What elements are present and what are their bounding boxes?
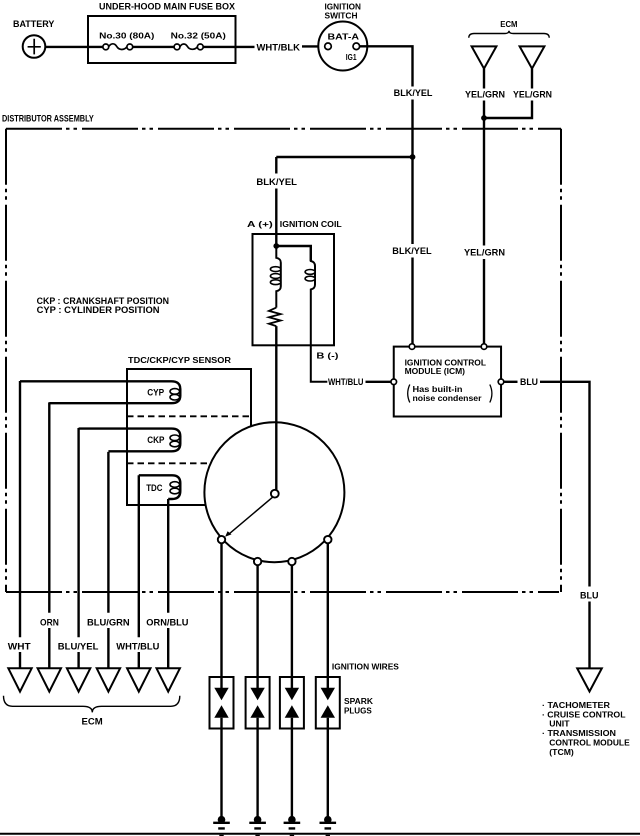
svg-text:BATTERY: BATTERY: [13, 19, 54, 29]
svg-text:SWITCH: SWITCH: [325, 12, 358, 21]
ground plane line: [0, 833, 640, 835]
svg-text:BLK/YEL: BLK/YEL: [256, 177, 297, 187]
ECM connector triangle 2: [38, 668, 61, 691]
svg-text:BLU: BLU: [580, 591, 599, 601]
ground 1: [213, 816, 230, 829]
primary winding: [276, 246, 281, 308]
sensor wire 2 (ORN): [48, 402, 50, 668]
wire BLU right and down: [540, 382, 590, 587]
svg-text:WHT/BLK: WHT/BLK: [257, 43, 301, 53]
CKP pickup coil loop: [79, 429, 181, 452]
terminal BAT-A: [325, 43, 332, 50]
ground 3rd bars: [219, 835, 330, 836]
sensor divider 2 (dashed): [127, 462, 251, 464]
ECM connector triangle 4: [97, 668, 120, 691]
spark plug 1: [210, 677, 234, 816]
ECM connector triangle 5: [127, 668, 150, 691]
wire ICM to BLU: [504, 381, 518, 383]
wire YEL/GRN down: [483, 118, 485, 246]
secondary winding: [311, 246, 328, 382]
svg-text:CKP: CKP: [147, 435, 164, 445]
ECM connector triangle (left): [472, 46, 497, 68]
svg-text:BLK/YEL: BLK/YEL: [392, 246, 432, 256]
wire: [275, 189, 277, 247]
ignition switch SW1: [318, 3, 367, 71]
wire ignition switch to BLK/YEL vertical: [360, 46, 413, 86]
ignition control module box U1: [394, 347, 501, 417]
battery B1: [13, 19, 54, 58]
sensor wire 1 (WHT): [19, 381, 21, 668]
svg-text:WHT: WHT: [8, 641, 31, 651]
ground 4: [320, 816, 337, 829]
svg-text:· CRUISE CONTROL: · CRUISE CONTROL: [542, 710, 626, 719]
svg-text:noise condenser: noise condenser: [413, 394, 482, 403]
destination device list: [542, 701, 630, 757]
rotor contact 3: [288, 558, 295, 565]
fuse No.32 (50A): [171, 32, 227, 50]
svg-text:IGNITION: IGNITION: [325, 3, 362, 12]
ECM underbrace: [4, 696, 180, 713]
svg-text:YEL/GRN: YEL/GRN: [464, 248, 505, 258]
spark wire 3: [291, 565, 293, 677]
TDC coil windings: [170, 482, 180, 488]
svg-text:ORN/BLU: ORN/BLU: [146, 617, 188, 627]
svg-text:B (-): B (-): [316, 351, 339, 360]
TDC pickup coil loop: [139, 475, 181, 499]
distributor assembly dashed border bottom: [6, 591, 559, 593]
CYP coil windings: [170, 389, 180, 395]
spark wire 1: [220, 543, 222, 677]
svg-text:WHT/BLU: WHT/BLU: [116, 641, 159, 651]
svg-text:Has built-in: Has built-in: [413, 385, 463, 394]
ICM pin (YEL/GRN): [481, 344, 487, 350]
wire fuse1 to fuse2: [133, 46, 175, 48]
junction A(+): [273, 243, 279, 249]
rotor contact 1: [218, 536, 225, 543]
wire fuse box to WHT/BLK label: [203, 46, 254, 48]
ICM pin (WHT/BLU): [391, 379, 397, 385]
distributor assembly dashed border top: [6, 128, 561, 130]
rotor contact 2: [254, 558, 261, 565]
distributor rotor circle: [204, 422, 344, 562]
svg-text:DISTRIBUTOR ASSEMBLY: DISTRIBUTOR ASSEMBLY: [2, 113, 94, 123]
rotor arrowhead: [225, 531, 231, 537]
sensor wire 5 (WHT/BLU): [138, 475, 140, 668]
distributor assembly dashed border left: [5, 129, 7, 592]
wire ECM right down: [531, 69, 533, 89]
CYP pickup coil loop: [20, 381, 180, 403]
svg-text:UNDER-HOOD MAIN FUSE BOX: UNDER-HOOD MAIN FUSE BOX: [99, 2, 235, 12]
sensor wire 3 (BLU/YEL): [77, 428, 79, 668]
svg-text:IGNITION COIL: IGNITION COIL: [280, 220, 342, 229]
wire BLU to connector: [588, 602, 590, 669]
junction at ignition coil branch: [410, 154, 416, 160]
wire coil to distributor center: [275, 326, 277, 490]
wire BLK/YEL junction down: [411, 157, 413, 244]
ICM pin (BLU): [498, 379, 504, 385]
sensor divider 1 (dashed): [127, 415, 251, 417]
svg-text:BLK/YEL: BLK/YEL: [394, 88, 433, 98]
wire junction to secondary: [276, 246, 311, 261]
svg-text:No.30 (80A): No.30 (80A): [99, 32, 155, 41]
CKP coil windings: [170, 435, 180, 441]
ignition coil box T1: [253, 234, 335, 345]
svg-text:A (+): A (+): [247, 220, 273, 229]
ECM connector triangle 6: [157, 668, 180, 691]
ICM pin (BLK/YEL): [409, 344, 415, 350]
svg-text:YEL/GRN: YEL/GRN: [513, 89, 552, 99]
ECM connector triangle 3: [67, 668, 90, 691]
svg-text:BLU/YEL: BLU/YEL: [58, 641, 99, 651]
svg-text:PLUGS: PLUGS: [344, 707, 372, 716]
spark plug 4: [316, 677, 340, 816]
svg-text:BLU/GRN: BLU/GRN: [87, 617, 130, 627]
wire WHT/BLK to ignition switch: [302, 45, 325, 47]
svg-text:· TACHOMETER: · TACHOMETER: [542, 701, 610, 710]
connector triangle BLU: [577, 668, 602, 691]
wire ICM-branch to ignition coil: [276, 156, 412, 158]
legend CKP/CYP: [37, 296, 169, 315]
spark wire 4: [327, 543, 329, 677]
rotor arm: [230, 497, 273, 533]
svg-text:ECM: ECM: [82, 716, 103, 726]
svg-text:YEL/GRN: YEL/GRN: [465, 89, 505, 99]
svg-text:(TCM): (TCM): [549, 748, 574, 757]
wire down to coil: [275, 157, 277, 174]
svg-text:IG1: IG1: [346, 53, 357, 62]
distributor assembly dashed border right: [560, 129, 562, 592]
svg-text:CONTROL MODULE: CONTROL MODULE: [549, 738, 630, 747]
spark plug 3: [280, 677, 304, 816]
wire YEL/GRN to ICM: [483, 259, 485, 344]
under-hood main fuse box: [88, 2, 236, 63]
svg-text:No.32 (50A): No.32 (50A): [171, 32, 227, 41]
svg-text:MODULE (ICM): MODULE (ICM): [405, 367, 466, 376]
sensor wire 6 (ORN/BLU): [167, 499, 169, 668]
wire battery to fuse box: [45, 46, 103, 48]
svg-text:UNIT: UNIT: [549, 719, 569, 728]
svg-text:CYP : CYLINDER POSITION: CYP : CYLINDER POSITION: [37, 305, 160, 315]
svg-text:BAT-A: BAT-A: [328, 32, 360, 41]
svg-text:CYP: CYP: [147, 387, 164, 397]
fuse No.30 (80A): [99, 32, 155, 50]
ECM connector triangle (right): [520, 46, 545, 68]
svg-text:TDC/CKP/CYP SENSOR: TDC/CKP/CYP SENSOR: [128, 356, 231, 365]
junction YEL/GRN: [481, 115, 487, 121]
ECM connector triangle 1: [8, 668, 31, 691]
svg-text:BLU: BLU: [520, 377, 538, 387]
spark plugs label: [344, 697, 373, 715]
ground 3: [284, 816, 301, 829]
rotor contact 4: [324, 536, 331, 543]
wire BLK/YEL to ICM: [411, 258, 413, 345]
terminal IG1: [353, 43, 360, 50]
svg-text:TDC: TDC: [146, 483, 163, 493]
wire ECM left down: [483, 69, 485, 89]
svg-text:ECM: ECM: [500, 20, 518, 29]
svg-text:IGNITION WIRES: IGNITION WIRES: [332, 662, 399, 672]
svg-text:· TRANSMISSION: · TRANSMISSION: [542, 729, 616, 738]
svg-text:WHT/BLU: WHT/BLU: [328, 377, 364, 387]
svg-text:ORN: ORN: [40, 617, 59, 627]
spark plug 2: [246, 677, 270, 816]
wire: [483, 101, 485, 119]
wire BLK/YEL down to junction: [411, 100, 413, 158]
spark wire 2: [256, 565, 258, 677]
wire right joins left: [484, 101, 532, 119]
sensor wire 4 (BLU/GRN): [107, 452, 109, 668]
resistor (coil primary resistance): [269, 308, 281, 327]
sensor box: [127, 369, 251, 505]
ECM brace: [469, 31, 549, 38]
distributor center terminal: [271, 490, 279, 498]
svg-text:SPARK: SPARK: [344, 697, 373, 706]
wire WHT/BLU to ICM: [366, 381, 392, 383]
ground 2: [249, 816, 266, 829]
